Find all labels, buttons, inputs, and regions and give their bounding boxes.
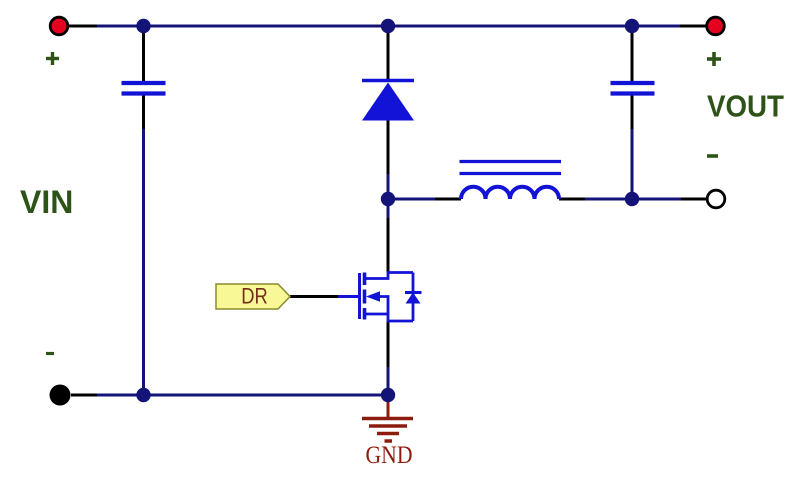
transistor Q1 NMOS with body diode [337, 273, 422, 322]
diode D1 [362, 81, 414, 121]
port flag DR [216, 284, 290, 310]
svg-text:VOUT: VOUT [707, 89, 784, 124]
wire switch node vertical navy [387, 174, 390, 218]
wire C2 bottom pin lead [631, 95, 634, 129]
terminal VOUT+ red [707, 17, 725, 35]
label VIN plus [46, 52, 59, 65]
label VOUT plus [707, 52, 721, 66]
wire DR flag to gate [290, 295, 338, 298]
wire top rail net VIN+ to VOUT+ [97, 25, 680, 28]
wire L1 right pin lead [559, 198, 585, 201]
wire Q1 source lead [387, 321, 390, 367]
label VIN minus [46, 352, 54, 355]
node junction bottom-left [136, 388, 150, 402]
wire D1 anode lead [387, 120, 390, 174]
svg-text:VIN: VIN [20, 184, 73, 220]
wire top-right black stub [680, 25, 708, 28]
node junction ground [381, 388, 395, 402]
wire right vertical net navy [631, 129, 634, 199]
wire bottom-left black stub [71, 394, 97, 397]
terminal VIN+ red [50, 17, 68, 35]
label VOUT minus [707, 154, 718, 158]
wire output mid rail navy [585, 198, 681, 201]
wire source to ground junction navy [387, 367, 390, 395]
ground [362, 402, 413, 441]
inductor L1 [460, 162, 562, 200]
node junction output mid [625, 192, 639, 206]
wire stub to VOUT- terminal [681, 198, 708, 201]
wire D1 cathode lead [387, 26, 390, 81]
terminal VIN- black [50, 385, 71, 406]
node junction top-right [625, 19, 639, 33]
wire C1 top pin lead [142, 26, 145, 82]
terminal VOUT- white [707, 190, 725, 208]
wire switch node horizontal navy [388, 198, 435, 201]
svg-text:GND: GND [366, 442, 413, 469]
node junction top-left [136, 19, 150, 33]
wire L1 left pin lead [435, 198, 461, 201]
wire C1 bottom pin lead [142, 95, 145, 129]
node junction top-middle [381, 19, 395, 33]
wire bottom rail navy [97, 394, 388, 397]
wire Q1 drain lead [387, 218, 390, 273]
capacitor C2 [611, 83, 655, 94]
node junction switch node [381, 192, 395, 206]
wire left vertical net to bottom rail [142, 129, 145, 395]
wire top-left black stub [66, 25, 97, 28]
capacitor C1 [122, 83, 166, 94]
wire C2 top pin lead [631, 26, 634, 82]
svg-text:DR: DR [241, 284, 268, 309]
